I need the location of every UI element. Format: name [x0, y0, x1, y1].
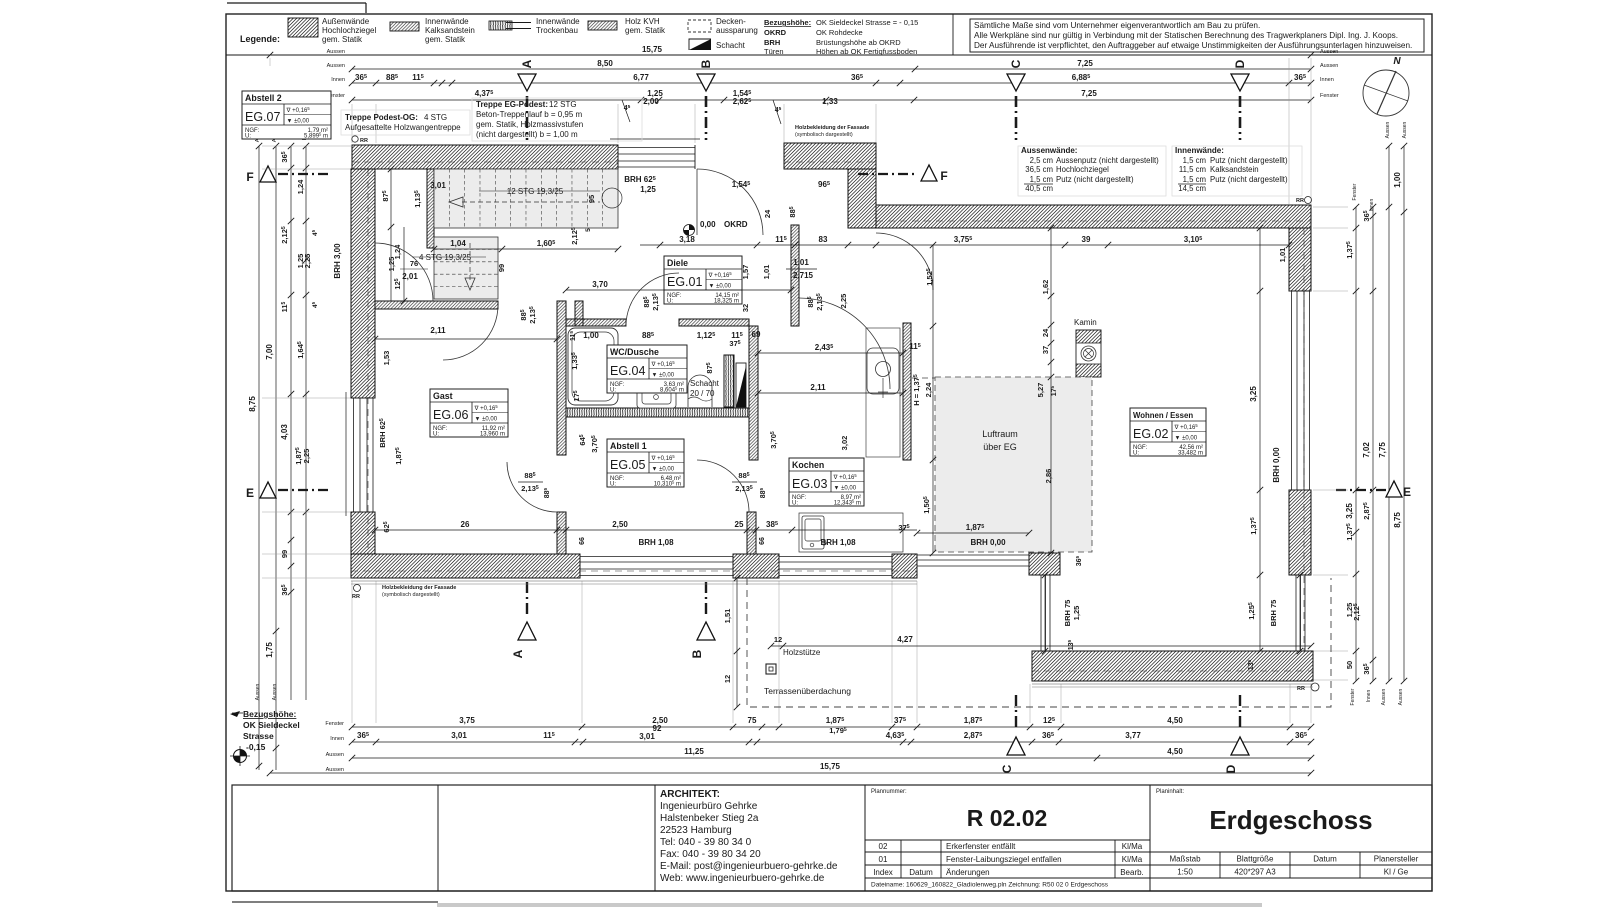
legend schacht sample — [689, 39, 711, 50]
svg-text:Kochen: Kochen — [792, 460, 824, 470]
bay window left (BRH 75) — [1040, 575, 1042, 651]
svg-text:BRH 1,08: BRH 1,08 — [638, 538, 674, 547]
svg-text:Kalksandstein: Kalksandstein — [1210, 165, 1259, 174]
svg-text:∇ +0,165: ∇ +0,165 — [708, 271, 733, 279]
svg-text:U:: U: — [433, 432, 439, 438]
svg-text:69: 69 — [752, 330, 761, 339]
svg-text:12,3435 m: 12,3435 m — [834, 498, 861, 506]
kochen left wall — [749, 326, 758, 460]
room label WC/Dusche EG.04 — [607, 345, 687, 393]
counter next to toilet — [866, 328, 900, 457]
right wall mid pier — [1289, 490, 1311, 575]
window right (BRH 0.00) — [1291, 291, 1293, 490]
svg-text:Aussen: Aussen — [326, 767, 344, 773]
gast right wall pier — [557, 512, 566, 554]
holzstuetze symbol — [766, 664, 776, 674]
svg-text:Aussen: Aussen — [272, 683, 278, 700]
svg-text:7,25: 7,25 — [1077, 59, 1093, 68]
svg-text:66: 66 — [759, 537, 766, 545]
svg-text:Kl / Ge: Kl / Ge — [1384, 868, 1409, 877]
svg-text:OKRD: OKRD — [764, 28, 787, 37]
svg-text:E: E — [246, 486, 254, 500]
svg-text:4,27: 4,27 — [897, 635, 913, 644]
svg-text:01: 01 — [879, 855, 888, 864]
svg-text:EG.02: EG.02 — [1133, 427, 1168, 441]
bay south wall — [1032, 651, 1313, 681]
svg-text:gem. Statik: gem. Statik — [425, 35, 466, 44]
svg-text:Bezugshöhe:: Bezugshöhe: — [243, 709, 297, 719]
svg-text:2,5 cm: 2,5 cm — [1030, 156, 1053, 165]
terrace door window (BRH 0.00) — [917, 554, 1029, 556]
svg-text:3,75: 3,75 — [459, 716, 475, 725]
svg-text:Innen: Innen — [1366, 690, 1372, 703]
svg-text:2,25: 2,25 — [302, 449, 311, 464]
svg-text:2,25: 2,25 — [303, 254, 312, 269]
svg-text:Aussen: Aussen — [1385, 121, 1391, 138]
abstell door arc — [507, 462, 557, 512]
wing room door arc (top right) — [876, 233, 933, 290]
south wall pier 2 — [892, 554, 917, 578]
guest wc toilet — [867, 348, 899, 394]
svg-text:Holzbekleidung der Fassade: Holzbekleidung der Fassade — [382, 585, 456, 591]
svg-text:∇ +0,165: ∇ +0,165 — [1174, 423, 1199, 431]
aussenwaende spec block — [1018, 146, 1166, 196]
svg-text:Planersteller: Planersteller — [1374, 855, 1419, 864]
left exterior wall upper — [351, 169, 375, 398]
svg-text:OK Rohdecke: OK Rohdecke — [816, 28, 863, 37]
svg-text:Kl/Ma: Kl/Ma — [1122, 842, 1143, 851]
legend strip — [226, 54, 1432, 56]
diele-wohnen door arc — [799, 298, 890, 389]
svg-text:2,00: 2,00 — [643, 97, 659, 106]
svg-text:1,51: 1,51 — [723, 609, 732, 624]
svg-text:EG.07: EG.07 — [245, 110, 280, 124]
svg-text:13,960 m: 13,960 m — [480, 432, 505, 438]
svg-text:3,01: 3,01 — [451, 731, 467, 740]
svg-text:∇ +0,165: ∇ +0,165 — [833, 473, 858, 481]
svg-text:1,01: 1,01 — [793, 258, 809, 267]
svg-text:Holzstütze: Holzstütze — [783, 648, 821, 657]
svg-text:37: 37 — [1041, 346, 1050, 354]
svg-text:1,00: 1,00 — [583, 331, 599, 340]
svg-text:2,11: 2,11 — [430, 326, 446, 335]
svg-text:▼ ±0,00: ▼ ±0,00 — [834, 486, 857, 492]
svg-text:Diele: Diele — [667, 258, 688, 268]
svg-text:ARCHITEKT:: ARCHITEKT: — [660, 789, 720, 800]
room label Kochen EG.03 — [789, 458, 864, 506]
svg-text:∇ +0,165: ∇ +0,165 — [474, 404, 499, 412]
wc shaft drywall — [724, 355, 734, 407]
svg-text:1,01: 1,01 — [762, 265, 771, 280]
south wall west — [351, 554, 580, 578]
svg-text:Aussen: Aussen — [326, 752, 344, 758]
svg-text:über EG: über EG — [983, 442, 1017, 452]
svg-text:Index: Index — [873, 868, 893, 877]
svg-text:Abstell 1: Abstell 1 — [610, 441, 647, 451]
svg-text:5,8995 m: 5,8995 m — [304, 131, 328, 139]
svg-text:Treppe Podest-OG:: Treppe Podest-OG: — [345, 113, 418, 122]
svg-text:RR: RR — [1297, 686, 1305, 692]
drawing frame — [226, 14, 1432, 891]
svg-text:BRH 625: BRH 625 — [624, 175, 655, 184]
svg-text:Plannummer:: Plannummer: — [871, 789, 907, 795]
svg-text:7,75: 7,75 — [1378, 442, 1387, 458]
svg-text:3,25: 3,25 — [1249, 386, 1258, 402]
schacht shaft symbol — [736, 363, 746, 407]
svg-text:Dateiname: 160629_160822_Gladi: Dateiname: 160629_160822_Gladiolenweg.pl… — [871, 882, 1109, 889]
interior dim line y249 — [434, 248, 618, 250]
svg-text:Erdgeschoss: Erdgeschoss — [1209, 805, 1372, 835]
wohnen dims — [932, 245, 934, 553]
svg-text:Legende:: Legende: — [240, 34, 280, 44]
svg-text:F: F — [246, 170, 253, 184]
svg-text:▼ ±0,00: ▼ ±0,00 — [709, 284, 732, 290]
svg-text:Innenwände:: Innenwände: — [1175, 146, 1224, 155]
svg-text:Aussen: Aussen — [327, 63, 345, 69]
window left (BRH 62.5) — [353, 398, 355, 512]
svg-text:4 STG: 4 STG — [424, 113, 447, 122]
svg-text:8,6045 m: 8,6045 m — [660, 385, 684, 393]
svg-text:25: 25 — [735, 520, 744, 529]
svg-text:2,01: 2,01 — [402, 272, 418, 281]
svg-text:Planinhalt:: Planinhalt: — [1156, 789, 1184, 795]
svg-text:7,02: 7,02 — [1362, 442, 1371, 458]
legend int wall hatch sample — [390, 22, 419, 31]
legend deckenaussparung sample — [688, 20, 711, 32]
svg-text:95: 95 — [587, 195, 596, 203]
svg-text:Holzbekleidung der Fassade: Holzbekleidung der Fassade — [795, 125, 869, 131]
stair wall — [427, 169, 434, 248]
svg-text:Aussen: Aussen — [1398, 688, 1404, 705]
svg-text:6,77: 6,77 — [633, 73, 649, 82]
svg-text:EG.03: EG.03 — [792, 477, 827, 491]
svg-text:26: 26 — [461, 520, 470, 529]
svg-text:1,62: 1,62 — [1041, 280, 1050, 295]
svg-text:50: 50 — [1345, 661, 1354, 669]
svg-text:Gast: Gast — [433, 391, 453, 401]
svg-text:Türen: Türen — [764, 47, 784, 56]
svg-text:Änderungen: Änderungen — [946, 868, 990, 877]
svg-text:1,53: 1,53 — [382, 351, 391, 366]
room label Diele EG.01 — [664, 256, 742, 304]
svg-text:B: B — [690, 649, 704, 658]
svg-text:5,27: 5,27 — [1036, 383, 1045, 398]
svg-text:Luftraum: Luftraum — [982, 429, 1018, 439]
room label Abstell 2 EG.07 — [242, 91, 331, 139]
innenwaende spec block — [1172, 146, 1302, 196]
svg-text:BRH 625: BRH 625 — [378, 418, 387, 448]
svg-text:BRH 75: BRH 75 — [1063, 600, 1072, 627]
svg-text:Erkerfenster entfällt: Erkerfenster entfällt — [946, 842, 1016, 851]
svg-text:D: D — [1224, 764, 1238, 773]
svg-text:33,482 m: 33,482 m — [1178, 451, 1203, 457]
svg-text:1:50: 1:50 — [1177, 868, 1193, 877]
svg-text:N: N — [1393, 56, 1401, 67]
svg-text:14,5 cm: 14,5 cm — [1178, 184, 1206, 193]
svg-text:▼ ±0,00: ▼ ±0,00 — [1175, 436, 1198, 442]
svg-text:Aussen: Aussen — [1402, 121, 1408, 138]
svg-text:∇ +0,165: ∇ +0,165 — [651, 360, 676, 368]
svg-text:Aussenputz (nicht dargestellt): Aussenputz (nicht dargestellt) — [1056, 156, 1159, 165]
svg-text:Kalksandstein: Kalksandstein — [425, 26, 475, 35]
svg-text:0,00: 0,00 — [700, 220, 716, 229]
svg-text:▼ ±0,00: ▼ ±0,00 — [652, 373, 675, 379]
svg-text:Fenster: Fenster — [1320, 93, 1339, 99]
svg-text:10,3105 m: 10,3105 m — [654, 479, 681, 487]
top wing exterior wall — [876, 205, 1311, 228]
bottom page artifacts — [232, 901, 438, 903]
svg-text:∇ +0,165: ∇ +0,165 — [286, 106, 311, 114]
section marker D bottom — [1239, 695, 1241, 730]
svg-text:4,50: 4,50 — [1167, 747, 1183, 756]
svg-text:Ingenieurbüro Gehrke: Ingenieurbüro Gehrke — [660, 801, 758, 812]
bay window right (BRH 75) — [1295, 575, 1297, 651]
svg-text:OK Sieldeckel Strasse = - 0,1: OK Sieldeckel Strasse = - 0,15 — [816, 18, 918, 27]
svg-text:1,33: 1,33 — [822, 97, 838, 106]
svg-text:20 / 70: 20 / 70 — [690, 389, 715, 398]
svg-text:12: 12 — [723, 675, 732, 683]
freestanding wall wohnen — [903, 323, 911, 460]
notes box — [970, 19, 1424, 52]
svg-text:Trockenbau: Trockenbau — [536, 26, 578, 35]
svg-text:Fenster: Fenster — [325, 721, 344, 727]
svg-text:12: 12 — [774, 635, 782, 644]
section marker B bottom — [705, 582, 707, 616]
svg-text:C: C — [1000, 764, 1014, 773]
svg-text:Maßstab: Maßstab — [1169, 855, 1201, 864]
svg-text:▼ ±0,00: ▼ ±0,00 — [475, 417, 498, 423]
level symbol — [234, 750, 247, 763]
diele right wall — [791, 225, 799, 326]
svg-text:Wohnen / Essen: Wohnen / Essen — [1133, 411, 1193, 420]
gast door arc — [443, 305, 498, 360]
svg-text:4 STG 19,3/25: 4 STG 19,3/25 — [419, 253, 472, 262]
svg-text:H = 1,375: H = 1,375 — [912, 374, 921, 406]
svg-text:36,5 cm: 36,5 cm — [1025, 165, 1053, 174]
svg-text:Holz KVH: Holz KVH — [625, 17, 660, 26]
room label Wohnen/Essen EG.02 — [1130, 408, 1206, 456]
svg-text:Höhen ab OK Fertigfussboden: Höhen ab OK Fertigfussboden — [816, 47, 917, 56]
svg-text:99: 99 — [497, 264, 506, 272]
svg-text:Halstenbeker Stieg 2a: Halstenbeker Stieg 2a — [660, 813, 759, 824]
svg-text:Treppe EG-Podest:: Treppe EG-Podest: — [476, 100, 548, 109]
svg-text:aussparung: aussparung — [716, 26, 758, 35]
svg-text:Alle Werkpläne sind nur gültig: Alle Werkpläne sind nur gültig in Verbin… — [974, 31, 1398, 40]
section marker E right — [1336, 489, 1388, 491]
svg-text:2,50: 2,50 — [612, 520, 628, 529]
svg-text:U:: U: — [610, 482, 616, 488]
wc top wall west — [566, 319, 626, 326]
kamin — [1076, 330, 1101, 377]
room label Gast EG.06 — [430, 389, 508, 437]
wall stub hall — [575, 301, 583, 326]
holzbekleidung note bottom — [354, 585, 361, 592]
svg-text:OK Sieldeckel: OK Sieldeckel — [243, 720, 300, 730]
svg-text:Abstell 2: Abstell 2 — [245, 93, 282, 103]
south dims interior — [375, 529, 917, 531]
bathtub — [568, 328, 618, 405]
svg-text:1,25: 1,25 — [1072, 606, 1081, 621]
svg-text:Putz (nicht dargestellt): Putz (nicht dargestellt) — [1210, 156, 1288, 165]
svg-text:BRH 0,00: BRH 0,00 — [970, 538, 1006, 547]
svg-text:7,25: 7,25 — [1081, 89, 1097, 98]
svg-text:15,75: 15,75 — [642, 45, 663, 54]
gast top wall — [375, 301, 498, 309]
svg-text:1,5 cm: 1,5 cm — [1030, 175, 1053, 184]
svg-text:39: 39 — [1082, 235, 1091, 244]
svg-text:EG.05: EG.05 — [610, 458, 645, 472]
stair upper flight 12 STG — [434, 169, 618, 228]
svg-text:Hochlochziegel: Hochlochziegel — [322, 26, 376, 35]
entry corner wall — [848, 169, 876, 228]
svg-text:18,325 m: 18,325 m — [714, 299, 739, 305]
svg-text:Tel: 040 - 39 80 34 0: Tel: 040 - 39 80 34 0 — [660, 837, 752, 848]
svg-text:▼ ±0,00: ▼ ±0,00 — [652, 467, 675, 473]
luftraum ueber EG — [935, 377, 1092, 552]
legend holz sample — [588, 21, 617, 30]
svg-text:Schacht: Schacht — [716, 41, 746, 50]
svg-text:3,18: 3,18 — [679, 235, 695, 244]
section marker C bottom — [1015, 695, 1017, 730]
svg-text:Der Ausführende ist verpflicht: Der Ausführende ist verpflichtet, den Au… — [974, 41, 1412, 50]
south window 2 (BRH 1.08) — [779, 556, 892, 558]
svg-text:D: D — [1233, 59, 1247, 68]
gast right wall — [557, 301, 566, 455]
legend ext wall hatch sample — [288, 18, 318, 37]
svg-text:Strasse: Strasse — [243, 731, 274, 741]
svg-text:Bezugshöhe:: Bezugshöhe: — [764, 18, 811, 27]
svg-text:5: 5 — [585, 228, 592, 232]
svg-text:24: 24 — [1041, 328, 1050, 337]
svg-text:U:: U: — [245, 134, 251, 140]
north compass — [1363, 70, 1409, 116]
svg-text:Aussen: Aussen — [327, 49, 345, 55]
title block — [232, 785, 1432, 891]
svg-text:▼ ±0,00: ▼ ±0,00 — [287, 119, 310, 125]
svg-text:3,02: 3,02 — [840, 436, 849, 451]
svg-text:83: 83 — [819, 235, 828, 244]
room label Abstell 1 EG.05 — [607, 439, 684, 487]
svg-text:OKRD: OKRD — [724, 220, 748, 229]
window top (BRH 62.5) — [618, 147, 695, 149]
svg-text:Datum: Datum — [909, 868, 933, 877]
svg-text:(symbolisch dargestellt): (symbolisch dargestellt) — [382, 592, 440, 598]
kochen left pier — [747, 512, 756, 554]
svg-text:3,70: 3,70 — [592, 280, 608, 289]
svg-text:3,01: 3,01 — [430, 181, 446, 190]
svg-text:RR: RR — [352, 594, 360, 600]
entry door arc — [697, 169, 763, 235]
legend drywall sample — [489, 21, 512, 30]
svg-text:EG.06: EG.06 — [433, 408, 468, 422]
svg-text:3,77: 3,77 — [1125, 731, 1141, 740]
svg-text:Datum: Datum — [1313, 855, 1337, 864]
treppe annotations — [341, 110, 470, 135]
svg-text:(nicht dargestellt) b = 1,00 m: (nicht dargestellt) b = 1,00 m — [476, 130, 578, 139]
svg-text:2,25: 2,25 — [839, 294, 848, 309]
kochen door arc — [697, 460, 749, 512]
svg-text:Innen: Innen — [1320, 77, 1334, 83]
svg-text:gem. Statik: gem. Statik — [625, 26, 666, 35]
svg-text:15,75: 15,75 — [820, 762, 841, 771]
svg-text:∇ +0,165: ∇ +0,165 — [651, 454, 676, 462]
svg-text:Aussen: Aussen — [255, 683, 261, 700]
left exterior wall lower — [351, 512, 375, 554]
svg-text:U:: U: — [667, 299, 673, 305]
svg-text:C: C — [1009, 59, 1023, 68]
svg-text:Web: www.ingenieurbuero-gehrke: Web: www.ingenieurbuero-gehrke.de — [660, 873, 825, 884]
svg-text:Innen: Innen — [331, 77, 345, 83]
svg-text:2,11: 2,11 — [810, 383, 826, 392]
svg-text:Fenster: Fenster — [1350, 688, 1356, 705]
svg-text:Blattgröße: Blattgröße — [1237, 855, 1274, 864]
svg-text:Aussen: Aussen — [1320, 63, 1338, 69]
svg-text:F: F — [940, 169, 947, 183]
south window 1 (BRH 1.08) — [580, 556, 733, 558]
svg-text:EG.01: EG.01 — [667, 275, 702, 289]
svg-text:U:: U: — [1133, 451, 1139, 457]
right wall upper pier — [1289, 228, 1311, 291]
RR marker bottom right — [1311, 683, 1319, 691]
svg-text:R 02.02: R 02.02 — [967, 805, 1048, 831]
svg-text:3,25: 3,25 — [1345, 503, 1354, 519]
svg-text:Kl/Ma: Kl/Ma — [1122, 855, 1143, 864]
svg-text:22523 Hamburg: 22523 Hamburg — [660, 825, 732, 836]
svg-text:8,75: 8,75 — [1393, 512, 1402, 528]
EG.07 door arc — [375, 243, 433, 301]
entry exterior wall — [784, 143, 876, 169]
wc bottom drywall — [566, 408, 749, 417]
svg-text:RR: RR — [360, 138, 368, 144]
svg-text:1,04: 1,04 — [450, 239, 466, 248]
interior dim line y245 — [640, 244, 1289, 246]
svg-text:12 STG 19,3/25: 12 STG 19,3/25 — [507, 187, 564, 196]
svg-text:8,50: 8,50 — [597, 59, 613, 68]
svg-text:Aussen: Aussen — [1320, 49, 1338, 55]
svg-text:Fenster: Fenster — [1352, 183, 1358, 200]
svg-text:Aussenwände:: Aussenwände: — [1021, 146, 1077, 155]
svg-text:24: 24 — [763, 209, 772, 218]
terrace overhang dashed — [747, 578, 1331, 707]
svg-text:Fenster-Laibungsziegel entfall: Fenster-Laibungsziegel entfallen — [946, 855, 1062, 864]
svg-text:2,715: 2,715 — [793, 271, 814, 280]
svg-text:Außenwände: Außenwände — [322, 17, 370, 26]
EG.07 room dims — [390, 169, 392, 301]
svg-text:Hochlochziegel: Hochlochziegel — [1056, 165, 1109, 174]
svg-text:2,24: 2,24 — [924, 382, 933, 397]
svg-text:11,5 cm: 11,5 cm — [1179, 165, 1206, 174]
svg-text:4,50: 4,50 — [1167, 716, 1183, 725]
svg-text:Beton-Treppenlauf b = 0,95 m: Beton-Treppenlauf b = 0,95 m — [476, 110, 583, 119]
kitchen counter and sink — [799, 513, 903, 552]
svg-text:Bearb.: Bearb. — [1120, 868, 1144, 877]
svg-text:BRH 0,00: BRH 0,00 — [1272, 447, 1281, 483]
svg-text:WC/Dusche: WC/Dusche — [610, 347, 659, 357]
svg-text:EG.04: EG.04 — [610, 364, 645, 378]
svg-text:gem. Statik: gem. Statik — [322, 35, 363, 44]
wc door arc — [626, 273, 679, 326]
svg-text:Kamin: Kamin — [1074, 318, 1097, 327]
svg-text:420*297 A3: 420*297 A3 — [1234, 868, 1276, 877]
south wall pier 1 — [733, 554, 779, 578]
okrd symbol — [684, 225, 695, 236]
svg-text:Decken-: Decken- — [716, 17, 746, 26]
svg-text:BRH 75: BRH 75 — [1269, 600, 1278, 627]
svg-text:7,00: 7,00 — [265, 344, 274, 360]
svg-text:Putz (nicht dargestellt): Putz (nicht dargestellt) — [1210, 175, 1288, 184]
svg-text:8,75: 8,75 — [248, 396, 257, 412]
svg-text:U:: U: — [610, 388, 616, 394]
